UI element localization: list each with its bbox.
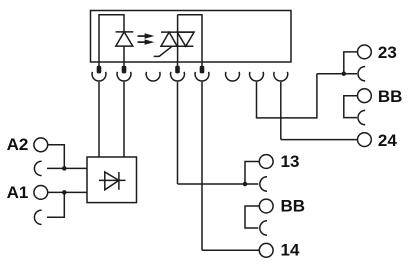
socket contact 3 (unused): [146, 72, 160, 81]
terminal 14 screw: [259, 243, 273, 257]
terminal A2 screw: [34, 138, 48, 152]
light coupling arrows: [138, 33, 155, 45]
node 13 junction: [243, 182, 248, 187]
terminal 13 plug contact: [260, 177, 267, 191]
wire (socket 8 down to terminal 24): [280, 82, 282, 140]
terminal BB mid screw: [259, 199, 273, 213]
terminal BB right screw: [358, 89, 372, 103]
wire (14 to socket 5): [202, 249, 259, 251]
terminal A2 plug contact: [34, 161, 41, 175]
svg-text:23: 23: [378, 43, 397, 62]
triac Q1: [160, 32, 194, 46]
svg-text:BB: BB: [378, 87, 403, 106]
diode D2 (polarity protection): [99, 172, 126, 190]
wire (LED cathode loop: pin1 up, across, down to LED bar): [99, 15, 124, 62]
terminal A1 screw: [34, 186, 48, 200]
wire (socket 2 down to input block): [123, 82, 125, 157]
terminal A1 plug contact: [34, 210, 41, 224]
pin 2 plug contact: [122, 62, 127, 73]
node A1 junction: [62, 190, 67, 195]
optocoupler module box U1: [91, 11, 292, 63]
pin 4 plug contact: [175, 62, 180, 73]
svg-text:BB: BB: [281, 196, 306, 215]
svg-text:A1: A1: [7, 183, 29, 202]
svg-text:13: 13: [281, 152, 300, 171]
wire (triac MT1 loop to pin 5): [178, 15, 202, 62]
socket contact 2: [117, 72, 131, 81]
wire (socket 1 down to input block): [98, 82, 100, 157]
node A2 junction: [62, 166, 67, 171]
wire (BB mid bridge): [245, 206, 259, 228]
pin 5 plug contact: [200, 62, 205, 73]
terminal 23 plug contact: [358, 67, 365, 81]
LED D1 (emitter diode, anode bottom): [116, 32, 134, 62]
socket contact 4: [171, 72, 185, 81]
socket contact 7: [250, 72, 264, 81]
wire (24 to socket 8): [281, 139, 358, 141]
socket contact 5: [195, 72, 209, 81]
wire (BB right bridge): [344, 96, 358, 118]
socket contact 8: [274, 72, 288, 81]
terminal BB right plug contact: [358, 110, 365, 124]
wire (A1 to input block): [48, 191, 87, 193]
triac gate: [154, 46, 172, 56]
terminal 13 screw: [259, 155, 273, 169]
socket contact 6 (unused): [226, 72, 240, 81]
terminal BB mid plug contact: [260, 221, 267, 235]
wire (13 to socket 4): [245, 162, 259, 185]
wire (socket 4 down to node 13): [177, 82, 179, 184]
wire (socket 5 down to terminal 14): [201, 82, 203, 251]
wire (triac MT2 to pin 4 through symbol): [177, 15, 179, 62]
terminal 24 screw: [358, 133, 372, 147]
input protection block: [87, 157, 137, 203]
svg-text:24: 24: [378, 131, 397, 150]
socket contact 1: [92, 72, 106, 81]
pin 1 plug contact: [97, 62, 102, 73]
svg-text:A2: A2: [7, 135, 29, 154]
node 23 junction: [342, 71, 347, 76]
wire (23 to node): [344, 52, 358, 74]
wire (A2 to input block): [48, 145, 65, 169]
terminal 23 screw: [358, 45, 372, 59]
svg-text:14: 14: [281, 241, 300, 260]
wire (socket 7 down and over to node 23): [257, 74, 317, 118]
